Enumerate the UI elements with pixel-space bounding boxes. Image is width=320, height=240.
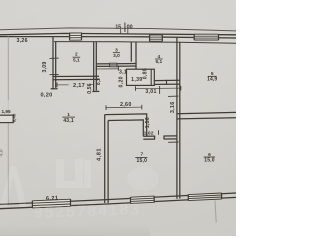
- main vertical wall rooms 4/5, 7/6: [168, 38, 180, 199]
- room 2 label: [73, 52, 81, 64]
- svg-text:0,20: 0,20: [119, 76, 125, 87]
- room 5 label: [207, 71, 217, 83]
- dim 1.02: [144, 130, 159, 136]
- dim 15.00: [115, 23, 132, 34]
- svg-text:2: 2: [75, 52, 78, 58]
- svg-text:4,0: 4,0: [0, 149, 5, 156]
- window bottom 1: [32, 199, 70, 208]
- svg-text:0,2: 0,2: [96, 78, 101, 85]
- svg-text:1,95: 1,95: [2, 109, 12, 114]
- room 2 left wall: [50, 37, 59, 90]
- dim 3.18: [96, 67, 130, 76]
- svg-text:5,1: 5,1: [73, 57, 80, 63]
- svg-text:14,9: 14,9: [207, 77, 217, 83]
- window bottom 2: [131, 196, 155, 204]
- room 7 label: [135, 152, 147, 164]
- window bottom 3: [188, 193, 221, 201]
- corridor wall top (2.60 wall): [105, 114, 147, 136]
- room 4 label: [155, 54, 163, 65]
- room 2 bottom wall: [53, 76, 99, 80]
- svg-text:15,0: 15,0: [204, 157, 215, 163]
- svg-text:1,39: 1,39: [131, 77, 142, 83]
- svg-text:3,01: 3,01: [145, 89, 156, 95]
- top wall outer line: [0, 33, 236, 34]
- svg-text:0,85: 0,85: [143, 68, 149, 79]
- svg-text:2,60: 2,60: [120, 102, 132, 108]
- top wall inner line: [54, 42, 236, 44]
- dim 3.01: [136, 86, 181, 95]
- room 3 bottom wall: [96, 63, 136, 70]
- window top A: [70, 33, 82, 41]
- top wall second line: [0, 37, 236, 38]
- photo edge shading bottom: [0, 0, 1, 1]
- room 1 label: [62, 112, 75, 124]
- watermark circle: [127, 167, 159, 191]
- dim 2.60: [106, 102, 142, 110]
- room 3/4 wall: [131, 42, 136, 81]
- dim 2.17: [57, 82, 94, 90]
- svg-text:0,56: 0,56: [87, 83, 93, 94]
- svg-text:2,17: 2,17: [73, 83, 85, 89]
- svg-text:3,26: 3,26: [17, 38, 28, 44]
- svg-text:3,0: 3,0: [113, 53, 120, 59]
- svg-text:15,0: 15,0: [137, 158, 148, 164]
- exterior stub below wall: [215, 200, 216, 222]
- room 6 label: [204, 152, 216, 164]
- svg-text:0,20: 0,20: [40, 93, 52, 99]
- window top C: [194, 34, 218, 40]
- svg-text:3,16: 3,16: [170, 101, 176, 113]
- left wall (faint): [7, 37, 9, 101]
- room 7 top wall: [143, 136, 177, 140]
- window top B: [150, 35, 163, 42]
- svg-text:1,50: 1,50: [145, 117, 151, 128]
- bottom wall: [0, 193, 236, 209]
- watermark pin: [0, 159, 91, 207]
- wall room1/room7 vertical: [105, 115, 108, 203]
- stove box on left wall: [0, 109, 17, 122]
- svg-text:43,1: 43,1: [63, 118, 74, 124]
- room 4 bottom wall: [154, 80, 180, 85]
- page border line: [0, 28, 236, 31]
- svg-text:5,1: 5,1: [155, 59, 162, 65]
- svg-text:3,09: 3,09: [42, 62, 48, 73]
- room 2/3 divider wall: [92, 42, 99, 92]
- room 3 label: [113, 47, 120, 59]
- svg-text:7: 7: [140, 152, 143, 158]
- wall rooms 5/6: [177, 112, 236, 119]
- svg-text:0,40: 0,40: [12, 113, 17, 122]
- paper background: [0, 0, 236, 236]
- svg-text:6,21: 6,21: [46, 196, 59, 203]
- svg-text:1,02: 1,02: [144, 130, 154, 136]
- closet box: [127, 68, 155, 85]
- svg-text:4,81: 4,81: [97, 148, 103, 161]
